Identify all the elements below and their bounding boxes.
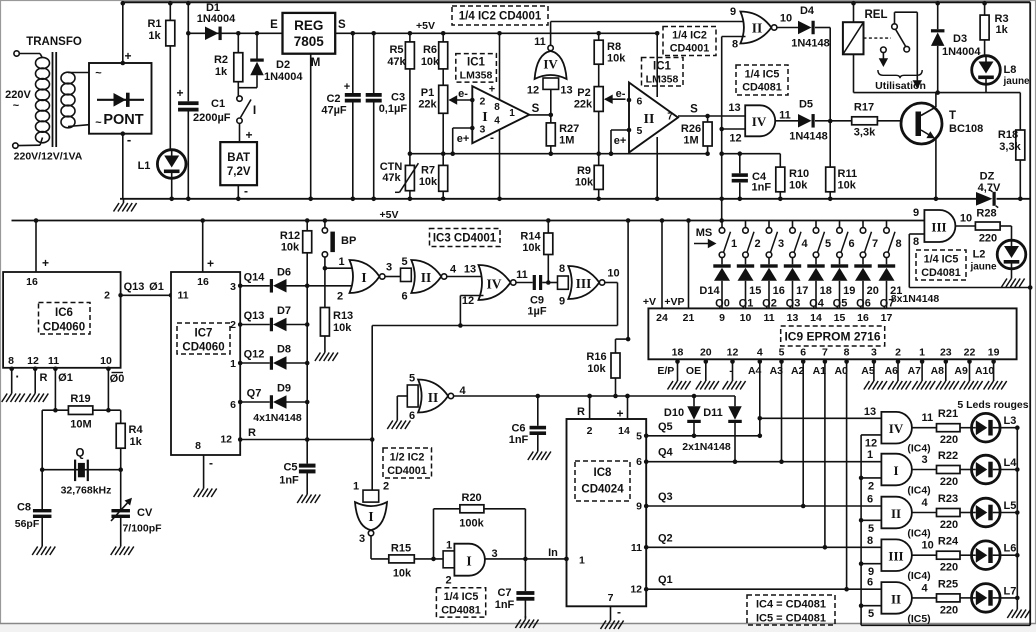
svg-text:22k: 22k [418,99,437,111]
svg-text:IV: IV [889,421,904,436]
svg-text:5: 5 [637,125,643,137]
svg-text:1nF: 1nF [509,434,529,446]
wire EPROM pin 20 gnd [705,359,707,377]
wire R24 to led [960,554,972,556]
svg-text:7: 7 [608,592,614,604]
svg-text:220: 220 [940,519,958,531]
resistor R15 [389,555,415,563]
wire PONT+ to rail [122,2,124,63]
svg-text:2: 2 [383,481,389,493]
wire IC8 Q2 row [644,545,649,550]
ground EPROM pin 12 [732,378,734,382]
svg-text:A5: A5 [861,365,875,377]
svg-text:IC5 = CD4081: IC5 = CD4081 [756,613,826,625]
svg-text:+VP: +VP [664,296,684,308]
svg-text:R2: R2 [214,54,228,66]
svg-text:47k: 47k [382,172,401,184]
svg-text:1: 1 [731,238,737,250]
IC IC9 EPROM 2716 box [648,308,1016,359]
switch MS-2 [745,221,747,228]
potentiometer P2 [594,87,603,112]
svg-text:CD4001: CD4001 [670,43,710,55]
wire P2 wiper arrow [605,98,626,100]
resistor R20 [460,505,484,513]
svg-text:D3: D3 [953,33,967,45]
svg-text:A10: A10 [975,365,994,377]
wire EPROM pin 18 gnd [677,359,679,377]
label 1/4 IC2 CD4001 box [663,27,716,56]
svg-text:L3: L3 [1004,415,1017,427]
potentiometer P1 [439,85,448,113]
svg-text:CD4001: CD4001 [387,465,427,477]
wire IC8 pin14 supply [625,394,630,399]
resistor R14 [546,218,551,223]
svg-text:10: 10 [922,540,934,552]
wire IC6 pin12 gnd [34,368,36,390]
svg-text:1: 1 [353,481,359,493]
svg-text:R17: R17 [854,102,874,114]
svg-text:11: 11 [779,110,791,122]
svg-text:220: 220 [940,434,958,446]
svg-text:8: 8 [195,440,201,452]
svg-text:+: + [245,128,252,142]
svg-text:R10: R10 [789,168,809,180]
capacitor C4 [739,154,741,174]
op-amp U-IC1-I [470,86,529,143]
svg-text:1N4148: 1N4148 [791,38,830,50]
svg-text:3: 3 [230,281,236,293]
svg-text:+: + [207,257,214,271]
svg-text:CD4081: CD4081 [921,267,961,279]
svg-text:+: + [344,81,350,93]
transformer secondary winding [61,72,75,84]
svg-text:8: 8 [732,39,738,51]
wire REL coil bottom [853,54,855,92]
wire relay output line [854,92,1021,94]
label IC1 LM358 box2 [642,58,684,87]
svg-text:47k: 47k [387,56,406,68]
ground C8 [41,543,43,547]
diode D11 [734,396,736,406]
svg-text:10k: 10k [333,322,352,334]
wire IC2-II input8 [722,36,746,38]
wire clock line [454,395,735,397]
transformer TRANSFO primary winding [40,54,43,59]
svg-text:5: 5 [779,347,785,359]
resistor R3 [984,2,986,15]
wire D7 to bus [287,324,308,326]
svg-text:220: 220 [940,476,958,488]
ground EPROM pin 18 [677,378,679,382]
svg-text:10k: 10k [393,568,412,580]
svg-text:11: 11 [48,355,59,367]
svg-text:jaune: jaune [969,262,997,273]
wire R21 to led [960,427,972,429]
svg-text:D2: D2 [276,59,290,71]
svg-text:100k: 100k [459,518,484,530]
svg-text:1nF: 1nF [495,599,515,611]
svg-text:R16: R16 [586,351,606,363]
wire L5 cathode [1000,512,1017,514]
svg-text:8: 8 [867,535,873,547]
wire +5V rail 2 [12,220,925,222]
diode D17 [784,264,801,267]
svg-text:7: 7 [872,238,878,250]
svg-text:12: 12 [527,85,539,97]
svg-text:9: 9 [559,296,565,308]
svg-text:8: 8 [494,102,500,113]
svg-text:10k: 10k [587,363,606,375]
wire node e+ line [410,153,708,155]
svg-text:4: 4 [922,582,929,594]
svg-text:Q13: Q13 [124,281,145,293]
svg-text:7: 7 [822,347,828,359]
wire gate4 lower input [861,605,881,607]
nor gate IC2-IV [535,51,567,79]
svg-text:II: II [891,591,901,606]
svg-text:17: 17 [881,312,893,324]
switch MS-3 [768,221,770,228]
svg-text:E: E [270,19,278,31]
svg-text:L2: L2 [973,249,986,261]
diode D1 [205,27,219,41]
svg-text:2: 2 [104,290,110,302]
svg-text:10k: 10k [575,177,594,189]
ground IIb input [396,417,398,421]
label 1/4 IC5 CD4081 box [736,65,788,95]
wire L7 cathode [1000,597,1017,599]
svg-text:IC1: IC1 [467,57,486,69]
wire R25 to led [960,597,972,599]
svg-text:9: 9 [636,501,642,513]
wire IC2-I out [370,536,372,559]
ground C6 [537,448,539,452]
svg-text:R25: R25 [938,578,958,590]
wire gate3 feedback [605,282,618,284]
svg-text:17: 17 [796,285,808,297]
capacitor C8 [41,470,43,509]
svg-text:16: 16 [197,276,209,288]
diode D2 [255,31,260,36]
svg-text:6: 6 [637,96,643,108]
svg-text:14: 14 [618,425,630,437]
svg-text:CD4060: CD4060 [182,342,224,354]
svg-text:D14: D14 [699,285,720,297]
resistor R24 [937,551,961,559]
svg-text:A7: A7 [908,365,922,377]
svg-text:A8: A8 [931,365,945,377]
svg-text:L6: L6 [1004,543,1017,555]
resistor R1 [169,2,171,20]
svg-text:13: 13 [728,102,740,114]
svg-text:I: I [893,463,898,478]
svg-text:12: 12 [220,434,232,446]
svg-text:+: + [616,407,623,421]
resistor R11 [829,121,831,167]
svg-text:6: 6 [867,577,873,589]
svg-text:12: 12 [865,437,877,449]
svg-text:4: 4 [494,116,500,127]
svg-text:D4: D4 [800,5,815,17]
nor gate IC3-I [350,260,380,293]
svg-text:2: 2 [868,480,874,492]
resistor R18 [1019,93,1021,130]
svg-text:21: 21 [683,312,695,324]
ground IC8 pin7 [610,617,612,621]
svg-text:1k: 1k [996,24,1009,36]
svg-text:C3: C3 [391,92,405,104]
svg-text:(IC4): (IC4) [907,528,930,540]
svg-text:Q4: Q4 [809,298,825,310]
wire IC6 pin16 supply [34,218,39,223]
label IC3 CD4001 box [430,229,501,247]
svg-text:Q5: Q5 [658,421,673,433]
transistor Q-T BC108 [901,103,942,144]
diode D19 [831,264,848,267]
svg-text:Q5: Q5 [833,298,848,310]
resistor R23 [937,509,961,517]
svg-text:Q1: Q1 [739,298,754,310]
svg-text:2: 2 [337,291,343,303]
svg-text:220: 220 [979,233,997,245]
resistor R10 [779,154,781,167]
svg-text:REL: REL [865,9,888,21]
svg-text:R13: R13 [333,310,353,322]
svg-text:S: S [532,103,540,115]
wire gate2 output [912,512,937,514]
svg-text:CD4024: CD4024 [581,484,624,496]
resistor R7 [439,165,448,191]
svg-text:R22: R22 [938,450,958,462]
svg-text:IV: IV [752,114,767,129]
svg-text:R8: R8 [607,41,621,53]
ground EPROM pin 23 [945,378,947,382]
svg-text:R19: R19 [70,393,90,405]
svg-text:R24: R24 [938,536,959,548]
svg-text:10k: 10k [607,53,626,65]
diode D5 [775,120,798,122]
wire gate0 output [912,427,937,429]
svg-text:4x1N4148: 4x1N4148 [253,412,302,424]
svg-text:D11: D11 [703,407,723,419]
svg-text:Q: Q [76,448,85,460]
svg-text:BC108: BC108 [949,123,983,135]
svg-text:P1: P1 [421,87,434,99]
resistor R28 [955,225,975,227]
svg-text:1/4 IC2 CD4001: 1/4 IC2 CD4001 [459,11,542,23]
svg-text:1: 1 [230,358,236,370]
svg-text:CV: CV [137,507,153,519]
svg-text:R21: R21 [938,408,958,420]
ground C5 [306,491,308,495]
wire op-amp I V- supply [499,130,501,199]
node terminal top [14,51,19,56]
wire BP to gate1 [325,267,355,269]
svg-text:P2: P2 [577,87,590,99]
svg-text:220: 220 [940,562,958,574]
svg-text:-: - [244,184,248,198]
wire D1 row [188,32,282,34]
svg-text:15: 15 [834,312,846,324]
svg-text:III: III [931,220,946,235]
svg-text:e+: e+ [457,133,470,145]
svg-text:Ø0: Ø0 [110,373,125,385]
svg-text:CD4060: CD4060 [43,322,85,334]
svg-text:3: 3 [480,124,486,136]
svg-text:I: I [466,554,471,569]
svg-text:II: II [428,390,439,405]
ground L2 [1011,275,1013,279]
ground C7 [524,616,526,620]
svg-text:LM358: LM358 [460,70,493,82]
resistor R4 [120,410,122,423]
wire REG M down [310,54,312,199]
svg-text:L5: L5 [1004,500,1017,512]
svg-text:MS: MS [696,227,713,239]
svg-text:8: 8 [895,238,901,250]
resistor R26 [707,116,709,122]
wire A0 column [846,359,848,589]
svg-text:+: + [489,84,495,96]
svg-text:IC7: IC7 [195,328,213,340]
wire gate12 node line [722,153,781,155]
capacitor C3 [373,33,375,93]
svg-text:e-: e- [458,88,468,100]
svg-text:32,768kHz: 32,768kHz [61,485,112,497]
svg-text:6: 6 [848,238,854,250]
wire P1 wiper arrow [450,99,472,101]
svg-text:IC6: IC6 [55,307,73,319]
svg-text:11: 11 [178,290,189,302]
wire A4 to gate13 [760,417,882,419]
wire IIb input gnd [397,395,407,397]
svg-text:LM358: LM358 [646,74,679,86]
label IC1 LM358 box1 [456,54,497,83]
wire relay common [894,12,896,24]
diode D7 [270,318,273,332]
wire gate2 out [447,276,484,278]
wire L3 cathode [1000,427,1017,429]
resistor R17 [830,120,852,122]
wire IC6 pin8 gnd [11,368,13,390]
svg-text:D9: D9 [277,383,291,395]
svg-text:(IC4): (IC4) [907,570,930,582]
svg-text:1/2 IC2: 1/2 IC2 [390,452,425,464]
wire gate4 output [912,597,937,599]
svg-text:11: 11 [516,269,528,281]
svg-text:7: 7 [667,112,673,123]
svg-text:M: M [311,57,321,69]
wire gate3 lower input [861,563,881,565]
svg-text:14: 14 [810,312,822,324]
svg-text:1M: 1M [683,135,698,147]
svg-text:Q0: Q0 [715,298,730,310]
svg-text:10k: 10k [789,180,808,192]
svg-text:11: 11 [763,312,774,324]
svg-text:220: 220 [940,604,958,616]
wire +VP line [686,218,691,223]
svg-text:R26: R26 [681,123,701,135]
svg-text:-: - [490,131,494,145]
wire A3 column [781,359,783,461]
diode D3 [937,2,939,29]
wire R22 to led [960,469,972,471]
wire R16 top branch [616,338,629,340]
wire crystal left [41,410,43,470]
wire led cathode bus [1016,428,1018,606]
LED L4 [972,455,1001,484]
svg-text:1nF: 1nF [279,475,299,487]
svg-text:1/4 IC5: 1/4 IC5 [745,69,780,81]
wire op-amp II V- supply [656,137,658,199]
wire right border rail [1029,2,1031,625]
wire gate1 output [912,469,937,471]
svg-text:10: 10 [607,268,619,280]
svg-text:3,3k: 3,3k [854,127,876,139]
svg-text:10k: 10k [838,180,857,192]
svg-text:~: ~ [13,100,20,112]
svg-text:Q1: Q1 [658,574,673,586]
svg-text:5: 5 [409,373,415,385]
IC IC8 CD4024 box [567,419,647,606]
IC IC7 CD4060 box [171,272,240,455]
svg-text:R20: R20 [462,492,482,504]
svg-text:D7: D7 [277,305,291,317]
svg-text:C7: C7 [497,587,511,599]
wire EPROM pin 19 gnd [993,359,995,377]
svg-text:·: · [15,369,19,384]
svg-text:OE: OE [686,365,701,377]
svg-text:18: 18 [672,347,684,359]
svg-text:In: In [548,547,558,559]
wire gate second input bus [860,435,862,625]
label IC4 IC5 note box [747,595,835,625]
svg-text:Q2: Q2 [658,532,673,544]
wire gate1 out [385,276,400,278]
resistor R2 [236,31,241,36]
label IC8 CD4024 [575,461,630,501]
diode D4 [777,27,798,29]
svg-text:5: 5 [868,523,874,535]
wire IC8 Q4 row [644,459,649,464]
label 1/4 IC2 CD4001 top [452,6,548,25]
svg-text:24: 24 [656,312,668,324]
LED L6 [972,541,1001,570]
svg-text:11: 11 [534,36,546,48]
svg-text:5 Leds rouges: 5 Leds rouges [957,399,1028,411]
wire MS arrow [694,243,714,245]
svg-text:Q7: Q7 [247,388,262,400]
wire gate1 lower input [861,477,881,479]
svg-text:1N4148: 1N4148 [789,131,828,143]
wire IC8 Q3 row [644,504,649,509]
svg-text:R18: R18 [998,129,1018,141]
svg-text:CD4081: CD4081 [742,82,782,94]
wire op-amp I V+ supply [497,31,502,36]
svg-text:IC1: IC1 [653,61,672,73]
wire diode bus [306,253,308,464]
svg-text:(IC4): (IC4) [907,485,930,497]
resistor R13 [324,268,326,307]
label 1/4 IC5 CD4081 box3 [916,250,966,280]
wire op-amp II e+ input [611,129,629,131]
svg-text:IC4 = CD4081: IC4 = CD4081 [756,599,826,611]
ground 0V rail [123,200,125,204]
wire L2 gnd [1011,269,1013,275]
svg-text:(IC4): (IC4) [907,443,930,455]
svg-text:13: 13 [560,85,572,97]
svg-text:R27: R27 [559,123,579,135]
